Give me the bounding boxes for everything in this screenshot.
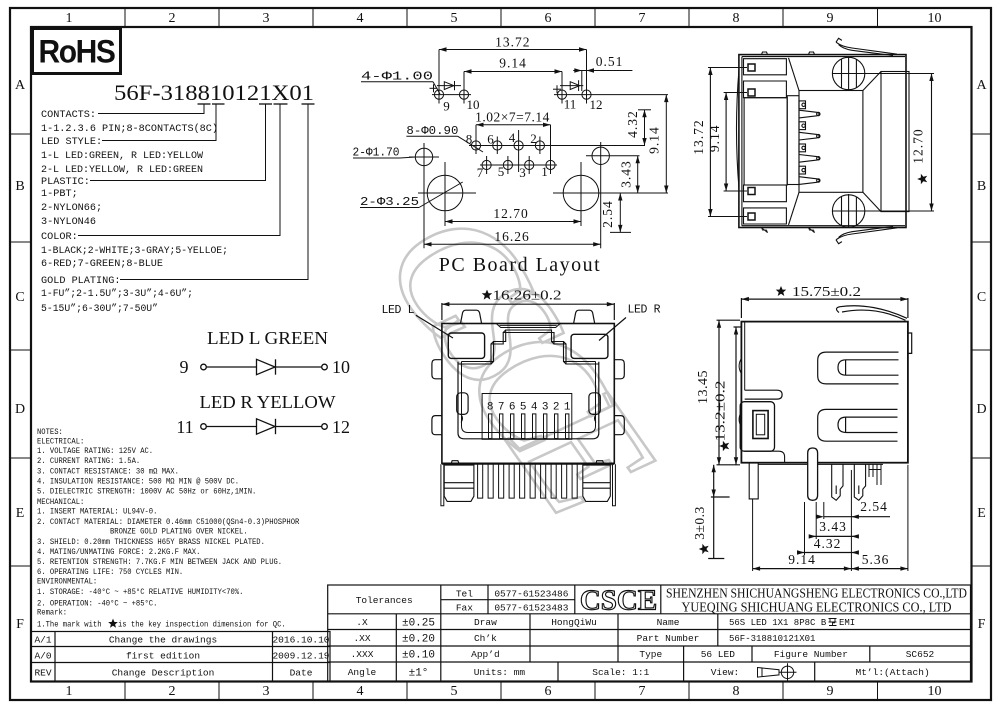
square pad 2 [748, 89, 755, 96]
svg-text:0577-61523486: 0577-61523486 [494, 589, 568, 600]
svg-text:4: 4 [357, 684, 364, 699]
svg-text:1.The mark with: 1.The mark with [37, 621, 102, 630]
svg-text:1-L LED:GREEN, R LED:YELLOW: 1-L LED:GREEN, R LED:YELLOW [41, 151, 204, 162]
polarity mark left [430, 84, 438, 92]
svg-text:3. SHIELD: 0.20mm THICKNESS H6: 3. SHIELD: 0.20mm THICKNESS H65Y BRASS N… [37, 538, 265, 547]
svg-text:9: 9 [180, 357, 189, 377]
svg-text:CSCE: CSCE [580, 585, 657, 617]
pin prong 6 [799, 155, 820, 163]
svg-text:5: 5 [451, 684, 458, 699]
svg-text:1-BLACK;2-WHITE;3-GRAY;5-YELLO: 1-BLACK;2-WHITE;3-GRAY;5-YELLOE; [41, 246, 228, 257]
dim 9.14 left [724, 93, 747, 192]
svg-text:PC Board Layout: PC Board Layout [439, 254, 602, 276]
svg-text:13.2±0.2: 13.2±0.2 [713, 381, 728, 442]
svg-text:3.43: 3.43 [819, 519, 847, 534]
svg-text:2.54: 2.54 [860, 499, 888, 514]
svg-text:12.70: 12.70 [493, 206, 528, 221]
contact comb box [482, 394, 572, 440]
svg-text:Date: Date [290, 668, 313, 679]
polarity mark right [553, 85, 561, 93]
svg-text:2. OPERATION: -40°C ~ +85°C.: 2. OPERATION: -40°C ~ +85°C. [37, 600, 157, 609]
svg-text:1: 1 [66, 11, 73, 26]
svg-text:3: 3 [519, 165, 526, 180]
svg-text:6: 6 [509, 402, 516, 414]
dim 4.32 right [638, 110, 651, 146]
dim 3 left [708, 465, 729, 559]
dim 15.75 top [741, 297, 908, 318]
barb leg 2 [854, 464, 865, 500]
svg-text:9.14: 9.14 [647, 126, 662, 154]
dim 13.45 left [717, 320, 741, 465]
svg-text:9: 9 [443, 99, 450, 114]
svg-text:2016.10.10: 2016.10.10 [272, 635, 329, 646]
top ground finger [836, 306, 907, 321]
svg-text:12.70: 12.70 [911, 128, 926, 163]
pin prong 4 [799, 132, 820, 140]
svg-text:C: C [977, 290, 986, 305]
LED L GREEN schematic [180, 328, 351, 377]
hole 12 [582, 50, 591, 104]
svg-text:3-NYLON46: 3-NYLON46 [41, 217, 96, 228]
notes text block [37, 428, 299, 630]
svg-text:3: 3 [542, 402, 549, 414]
pin hole 7 [482, 156, 491, 174]
svg-text:8: 8 [466, 132, 473, 147]
pin tails [869, 464, 881, 485]
latch slot profile [459, 330, 599, 364]
leader LED R [599, 318, 626, 341]
svg-text:E: E [977, 506, 986, 521]
pin hole 4 [514, 130, 523, 172]
dim 9.14 right [664, 95, 668, 193]
svg-text:16.26: 16.26 [494, 229, 529, 244]
CJK char placeholder in name [829, 619, 837, 626]
inner top line [744, 322, 746, 391]
pin header block [787, 96, 799, 185]
wire [276, 426, 322, 428]
latch shelf [745, 390, 782, 399]
shield outer box [739, 55, 906, 228]
svg-text:3: 3 [263, 684, 270, 699]
svg-text:Remark:: Remark: [37, 609, 67, 618]
pin stub 5 [799, 144, 806, 152]
svg-text:F: F [978, 617, 986, 632]
svg-text:5: 5 [498, 164, 505, 179]
svg-text:BRONZE GOLD PLATING OVER NICKE: BRONZE GOLD PLATING OVER NICKEL. [110, 528, 248, 537]
dim 16.26 [424, 242, 601, 246]
svg-text:CONTACTS:: CONTACTS: [41, 110, 96, 121]
svg-text:HongQiWu: HongQiWu [551, 617, 597, 628]
svg-text:A: A [976, 78, 987, 93]
pin hole 2 [535, 137, 544, 155]
svg-text:Ch’k: Ch’k [474, 633, 497, 644]
company names [666, 587, 967, 616]
wire led row right extends to 9.14 witness [554, 94, 668, 96]
pin prong 2 [799, 110, 820, 118]
svg-text:Name: Name [657, 617, 680, 628]
shield side tab left lower [432, 416, 442, 435]
dim 1.02x7=7.14 [476, 123, 551, 127]
corner diagonals [789, 58, 800, 91]
view angle symbol [758, 663, 797, 681]
side view of jack [708, 297, 912, 571]
dim 16.26 front [442, 302, 614, 320]
svg-text:±1°: ±1° [409, 668, 429, 680]
svg-text:13.45: 13.45 [696, 370, 711, 404]
svg-text:2: 2 [169, 11, 176, 26]
svg-text:6. OPERATING LIFE: 750 CYCLES: 6. OPERATING LIFE: 750 CYCLES MIN. [37, 568, 183, 577]
leader LED L [416, 315, 453, 338]
svg-text:.XX: .XX [353, 633, 370, 644]
svg-text:REV: REV [34, 668, 51, 679]
front view of jack [416, 302, 626, 506]
right rear tab [908, 333, 912, 353]
svg-text:1. VOLTAGE RATING: 125V AC.: 1. VOLTAGE RATING: 125V AC. [37, 447, 153, 456]
svg-text:1-FU”;2-1.5U”;3-3U”;4-6U”;: 1-FU”;2-1.5U”;3-3U”;4-6U”; [41, 288, 193, 300]
svg-text:Units: mm: Units: mm [474, 667, 526, 678]
svg-text:1: 1 [541, 164, 548, 179]
svg-text:Figure Number: Figure Number [774, 649, 848, 660]
rear flange [881, 72, 909, 212]
hole 9 [434, 50, 443, 104]
pin stub 1 [799, 101, 806, 109]
svg-text:7: 7 [639, 11, 646, 26]
side bump upper [739, 358, 741, 373]
svg-text:12: 12 [332, 417, 350, 437]
svg-text:±0.25: ±0.25 [402, 618, 435, 630]
plug cavity opening [744, 98, 787, 185]
svg-text:6-RED;7-GREEN;8-BLUE: 6-RED;7-GREEN;8-BLUE [41, 259, 163, 270]
svg-text:1: 1 [66, 684, 73, 699]
svg-text:56F-318810121X01: 56F-318810121X01 [114, 80, 314, 105]
svg-text:Tolerances: Tolerances [356, 595, 413, 606]
left panel clip arc [737, 70, 740, 189]
svg-text:8: 8 [487, 402, 494, 414]
svg-text:56F-318810121X01: 56F-318810121X01 [729, 634, 815, 644]
dim 13.72 left [708, 68, 747, 217]
svg-text:2-Φ3.25: 2-Φ3.25 [360, 196, 419, 209]
revision table [31, 632, 330, 682]
svg-text:LED STYLE:: LED STYLE: [41, 137, 102, 148]
svg-text:SC652: SC652 [906, 649, 935, 660]
bottom dim witness lines [753, 465, 908, 571]
square pad 4 [748, 213, 755, 220]
svg-text:10: 10 [928, 684, 942, 699]
upper EMI fork [818, 352, 899, 384]
svg-text:Angle: Angle [348, 667, 377, 678]
svg-text:Change the drawings: Change the drawings [109, 635, 217, 646]
leader 2-phi3.25 [360, 182, 463, 208]
CSCE logo [580, 585, 657, 617]
shield side tab right upper [614, 360, 624, 379]
shield side tab right lower [614, 416, 624, 435]
cavity side key left [457, 393, 468, 415]
terminal 10 [322, 364, 328, 370]
svg-text:4. INSULATION RESISTANCE: 500: 4. INSULATION RESISTANCE: 500 MΩ MIN @ 5… [37, 478, 239, 487]
wire [206, 366, 256, 368]
svg-text:4.32: 4.32 [814, 536, 842, 551]
svg-text:Part Number: Part Number [637, 633, 700, 644]
svg-text:4-Φ1.00: 4-Φ1.00 [361, 71, 433, 84]
svg-text:4: 4 [531, 402, 538, 414]
diode D-L [257, 359, 276, 374]
svg-text:2-NYLON66;: 2-NYLON66; [41, 203, 102, 214]
dim 12.70 right [866, 74, 934, 212]
side key bumps [461, 414, 463, 422]
svg-text:12: 12 [590, 97, 603, 112]
svg-text:10: 10 [928, 11, 942, 26]
svg-text:LED L: LED L [382, 304, 415, 317]
svg-text:.XXX: .XXX [351, 649, 374, 660]
hole phi1.70 right [586, 142, 640, 248]
svg-text:A/0: A/0 [34, 651, 51, 662]
LED L window [448, 333, 484, 358]
svg-text:A: A [15, 78, 26, 93]
LED housing block [740, 402, 774, 452]
left shield leg [749, 463, 758, 499]
svg-text:RoHS: RoHS [39, 34, 116, 70]
dim 12.70 [445, 219, 581, 223]
svg-text:first edition: first edition [126, 651, 200, 662]
svg-text:5: 5 [451, 11, 458, 26]
leader 2-phi1.70 [353, 157, 415, 158]
hole phi3.25 right [553, 162, 668, 226]
flange strip B [744, 81, 787, 98]
svg-text:2-L LED:YELLOW, R LED:GREEN: 2-L LED:YELLOW, R LED:GREEN [41, 165, 203, 176]
svg-text:1-PBT;: 1-PBT; [41, 189, 78, 200]
svg-text:LED L GREEN: LED L GREEN [207, 328, 328, 348]
top edge bumps [762, 52, 768, 55]
svg-text:3: 3 [263, 11, 270, 26]
svg-text:13.72: 13.72 [495, 35, 530, 50]
svg-text:EMI: EMI [839, 618, 855, 628]
svg-text:.X: .X [356, 617, 368, 628]
screw post bottom [832, 194, 866, 228]
svg-text:7: 7 [477, 165, 484, 180]
svg-text:Change Description: Change Description [112, 668, 215, 679]
part number heading 56F-318810121X01 [114, 80, 315, 105]
shield side tab left upper [432, 360, 442, 379]
svg-text:4. MATING/UNMATING FORCE: 2.2K: 4. MATING/UNMATING FORCE: 2.2KG.F MAX. [37, 548, 200, 557]
top view of connector [708, 38, 934, 243]
svg-text:2: 2 [169, 684, 176, 699]
svg-text:2009.12.19: 2009.12.19 [272, 651, 329, 662]
diode D-R [257, 419, 276, 434]
svg-text:6: 6 [487, 132, 494, 147]
svg-text:9: 9 [827, 684, 834, 699]
pin stub 3 [799, 122, 806, 130]
svg-text:View:: View: [711, 667, 740, 678]
bottom flange strip A2 [744, 208, 787, 224]
svg-text:3.43: 3.43 [619, 160, 634, 188]
dim 0.51 [573, 68, 632, 91]
bottom flange strip B2 [744, 185, 787, 202]
side bump lower [739, 412, 741, 427]
svg-text:0.51: 0.51 [596, 54, 624, 69]
option list text [41, 110, 228, 315]
wire [276, 366, 322, 368]
shield leg far right [613, 464, 616, 506]
svg-text:9.14: 9.14 [788, 552, 816, 567]
bottom ground spring wire [836, 226, 897, 243]
dim 2.54 bottom [816, 515, 890, 519]
svg-text:56 LED: 56 LED [701, 649, 736, 660]
svg-text:YUEQING SHICHUANG ELECTRONICS: YUEQING SHICHUANG ELECTRONICS CO., LTD [682, 601, 952, 616]
hole phi3.25 left [418, 162, 476, 226]
svg-text:5. DIELECTRIC STRENGTH: 1000V: 5. DIELECTRIC STRENGTH: 1000V AC 50Hz or… [37, 488, 256, 497]
dim 4.32 bottom [797, 550, 859, 554]
main cavity [458, 362, 599, 439]
svg-text:7: 7 [498, 402, 505, 414]
svg-text:Type: Type [639, 649, 662, 660]
terminal 9 [201, 364, 207, 370]
svg-text:2. CONTACT MATERIAL: DIAMETER: 2. CONTACT MATERIAL: DIAMETER 0.46mm C51… [37, 518, 299, 527]
svg-text:PLASTIC:: PLASTIC: [41, 177, 90, 188]
bottom edge second line [442, 463, 614, 465]
bottom base line [758, 463, 883, 465]
dim 3.43 right [636, 156, 640, 193]
svg-text:13.72: 13.72 [691, 119, 706, 154]
svg-text:6: 6 [545, 11, 552, 26]
svg-text:9.14: 9.14 [499, 56, 527, 71]
svg-text:2-Φ1.70: 2-Φ1.70 [353, 147, 400, 160]
transformer housing block [799, 91, 863, 193]
svg-text:5.36: 5.36 [862, 552, 890, 567]
svg-text:0577-61523483: 0577-61523483 [494, 603, 568, 614]
svg-text:6: 6 [545, 684, 552, 699]
svg-text:Tel: Tel [456, 589, 473, 600]
svg-text:D: D [15, 402, 25, 417]
svg-text:10: 10 [332, 357, 350, 377]
svg-text:Mt’l:(Attach): Mt’l:(Attach) [856, 667, 930, 678]
shield leg far left [441, 464, 444, 506]
svg-text:56S LED 1X1 8P8C B: 56S LED 1X1 8P8C B [729, 618, 827, 628]
PCB layout texts [353, 35, 662, 277]
left foot block [444, 461, 474, 502]
svg-text:Draw: Draw [474, 617, 497, 628]
svg-text:B: B [977, 179, 986, 194]
svg-text:SHENZHEN SHICHUANGSHENG ELECTR: SHENZHEN SHICHUANGSHENG ELECTRONICS CO.,… [666, 587, 967, 602]
dim 3.43 bottom [809, 534, 859, 538]
svg-text:2: 2 [553, 402, 560, 414]
wire [206, 426, 256, 428]
leader lines from part number digits to option labels [78, 104, 308, 280]
svg-text:ELECTRICAL:: ELECTRICAL: [37, 438, 84, 447]
svg-text:15.75±0.2: 15.75±0.2 [792, 284, 861, 299]
pin comb legs [478, 464, 578, 498]
svg-text:MECHANICAL:: MECHANICAL: [37, 498, 84, 507]
top tab right [574, 310, 595, 323]
hole phi1.70 left [409, 143, 439, 248]
right foot block [583, 461, 611, 502]
svg-text:App’d: App’d [471, 649, 500, 660]
svg-text:GOLD PLATING:: GOLD PLATING: [41, 276, 120, 287]
svg-text:3. CONTACT RESISTANCE: 30 mΩ M: 3. CONTACT RESISTANCE: 30 mΩ MAX. [37, 468, 179, 477]
PC Board Layout drawing [353, 47, 669, 248]
square pad 1 [748, 64, 755, 71]
pin hole 8 [471, 125, 480, 154]
svg-text:Scale: 1:1: Scale: 1:1 [592, 667, 649, 678]
dim 9.14 top [464, 69, 562, 73]
hole 10 [459, 72, 468, 104]
svg-text:LED R YELLOW: LED R YELLOW [200, 392, 337, 412]
square pad 3 [748, 188, 755, 195]
LED R YELLOW schematic [176, 392, 350, 437]
RoHS logo [33, 29, 121, 74]
leader 8-phi0.90 [406, 136, 483, 152]
EMI ground peg [808, 448, 818, 500]
pin hole 1 [546, 125, 555, 174]
svg-text:16.26±0.2: 16.26±0.2 [493, 287, 562, 302]
svg-text:is the key inspection dimensio: is the key inspection dimension for QC. [118, 621, 286, 630]
wire led row left [432, 94, 471, 96]
barb leg 1 [832, 464, 843, 500]
svg-text:3±0.3: 3±0.3 [692, 506, 707, 540]
screw post top [832, 57, 866, 91]
svg-text:8: 8 [733, 684, 740, 699]
diode L pcb [437, 81, 461, 90]
terminal 11 [201, 424, 207, 430]
pin row center lines [469, 145, 645, 147]
title block [328, 585, 971, 682]
svg-text:±0.20: ±0.20 [402, 634, 435, 646]
svg-text:1.02×7=7.14: 1.02×7=7.14 [475, 110, 550, 125]
dim 2.54 right [610, 193, 631, 232]
leader 4-phi1.00 [361, 82, 440, 94]
svg-text:4.32: 4.32 [625, 110, 640, 138]
svg-text:NOTES:: NOTES: [37, 428, 63, 437]
pin hole 3 [525, 156, 534, 174]
svg-text:ENVIRONMENTAL:: ENVIRONMENTAL: [37, 578, 97, 587]
hole 11 [557, 72, 566, 104]
pin hole 6 [493, 137, 502, 155]
body outline [442, 324, 614, 464]
dim 9.14 / 5.36 bottom [753, 566, 908, 570]
svg-text:5. RETENTION STRENGTH: 7.7KG.F: 5. RETENTION STRENGTH: 7.7KG.F MIN BETWE… [37, 558, 282, 567]
svg-text:4: 4 [357, 11, 364, 26]
svg-text:7: 7 [639, 684, 646, 699]
svg-text:5-15U”;6-30U”;7-50U”: 5-15U”;6-30U”;7-50U” [41, 303, 158, 315]
svg-text:D: D [976, 402, 986, 417]
svg-text:11: 11 [564, 97, 577, 112]
svg-text:2: 2 [530, 131, 537, 146]
svg-text:E: E [16, 506, 25, 521]
pin prong 8 [799, 177, 820, 185]
svg-text:1-1.2.3.6 PIN;8-8CONTACTS(8C): 1-1.2.3.6 PIN;8-8CONTACTS(8C) [41, 123, 218, 135]
svg-text:F: F [16, 617, 24, 632]
svg-text:8-Φ0.90: 8-Φ0.90 [406, 125, 458, 138]
svg-text:8: 8 [733, 11, 740, 26]
svg-text:11: 11 [176, 417, 193, 437]
svg-text:2.54: 2.54 [600, 200, 615, 228]
top ground spring wire [836, 38, 897, 55]
pin stub 7 [799, 166, 806, 174]
terminal 12 [322, 424, 328, 430]
contact slots [489, 414, 569, 439]
top center step [496, 324, 560, 328]
dim 13.72 top [439, 47, 587, 51]
svg-text:COLOR:: COLOR: [41, 232, 78, 243]
svg-text:1: 1 [564, 402, 571, 414]
top tab left [461, 310, 482, 323]
LED R window [571, 334, 608, 358]
diode R pcb [560, 80, 583, 91]
cavity side key right [589, 393, 600, 415]
dim 13.2 left [734, 327, 743, 465]
svg-text:A/1: A/1 [34, 635, 51, 646]
svg-text:9: 9 [827, 11, 834, 26]
pin hole 5 [503, 156, 512, 174]
